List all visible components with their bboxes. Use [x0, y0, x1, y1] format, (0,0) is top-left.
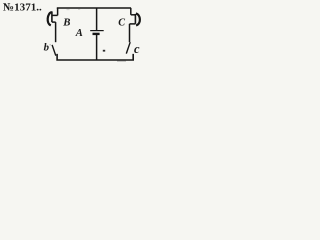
svg-text:№1371..: №1371..: [3, 1, 42, 13]
svg-text:C: C: [118, 17, 125, 28]
svg-text:B: B: [62, 16, 70, 28]
svg-text:b: b: [44, 41, 50, 53]
svg-text:c: c: [134, 42, 140, 56]
svg-text:A: A: [75, 28, 83, 39]
